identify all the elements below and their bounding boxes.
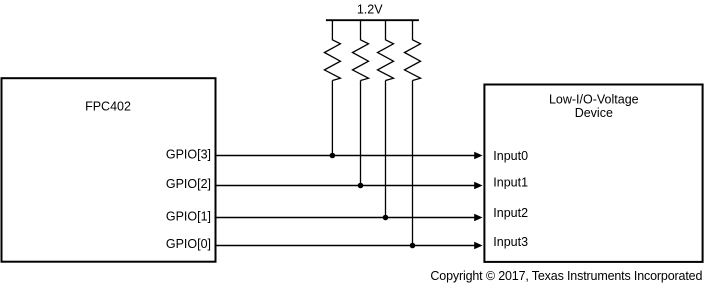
svg-text:Low-I/O-VoltageDevice: Low-I/O-VoltageDevice [549, 93, 639, 120]
svg-text:GPIO[2]: GPIO[2] [166, 177, 211, 191]
arrowhead into Input2 [474, 214, 482, 221]
svg-text:GPIO[3]: GPIO[3] [166, 147, 211, 161]
wire R2 bottom lead to GPIO[2] net [360, 81, 362, 186]
svg-text:GPIO[1]: GPIO[1] [166, 209, 211, 223]
junction R2 / GPIO[2] wire [358, 183, 364, 189]
resistor R4 [405, 40, 421, 81]
block U2 Low-I/O-Voltage Device [484, 85, 702, 262]
wire GPIO[1] to Input2 [216, 217, 477, 219]
wire R4 top lead [412, 20, 414, 40]
svg-text:Input1: Input1 [493, 175, 528, 189]
wire R2 top lead [360, 20, 362, 40]
wire R4 bottom lead to GPIO[0] net [412, 81, 414, 246]
wire R1 top lead [331, 20, 333, 40]
wire GPIO[0] to Input3 [216, 245, 477, 247]
svg-text:Input0: Input0 [493, 149, 528, 163]
junction R3 / GPIO[1] wire [383, 215, 389, 221]
junction R4 / GPIO[0] wire [410, 243, 416, 249]
svg-text:Input3: Input3 [493, 235, 528, 249]
resistor R2 [353, 40, 369, 81]
wire R3 bottom lead to GPIO[1] net [385, 81, 387, 218]
svg-text:Copyright © 2017, Texas Instru: Copyright © 2017, Texas Instruments Inco… [430, 269, 702, 283]
arrowhead into Input1 [474, 182, 482, 189]
resistor R1 [324, 40, 340, 81]
wire 1.2V power rail [326, 19, 419, 21]
arrowhead into Input3 [474, 242, 482, 249]
svg-text:1.2V: 1.2V [357, 3, 383, 17]
svg-text:FPC402: FPC402 [85, 100, 131, 114]
wire GPIO[3] to Input0 [216, 155, 477, 157]
svg-text:Input2: Input2 [493, 206, 528, 220]
wire R1 bottom lead to GPIO[3] net [331, 81, 333, 156]
wire R3 top lead [385, 20, 387, 40]
wire GPIO[2] to Input1 [216, 185, 477, 187]
svg-text:GPIO[0]: GPIO[0] [166, 237, 211, 251]
arrowhead into Input0 [474, 152, 482, 159]
junction R1 / GPIO[3] wire [330, 153, 336, 159]
block U1 FPC402 [2, 78, 216, 262]
resistor R3 [378, 40, 394, 81]
